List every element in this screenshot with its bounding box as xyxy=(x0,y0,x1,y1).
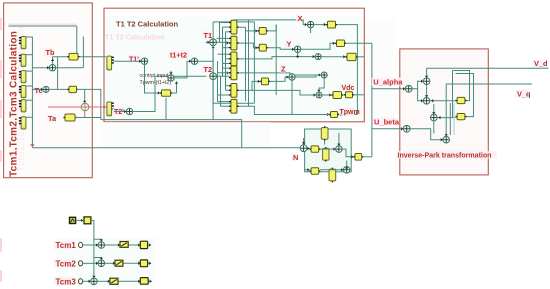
svg-text:T1: T1 xyxy=(204,31,213,40)
sum Z xyxy=(289,74,295,80)
gain block Ta xyxy=(63,114,76,121)
wire T2p to sum T2p xyxy=(114,111,127,113)
svg-text:Tb: Tb xyxy=(46,48,56,57)
lookup block L6 xyxy=(19,117,26,129)
sum B xyxy=(423,78,430,85)
label t1+t2 xyxy=(169,51,190,60)
rail wire r1 xyxy=(245,27,247,101)
svg-text:X: X xyxy=(298,14,303,23)
wire sum N3 up xyxy=(346,161,348,167)
lookup block L2 xyxy=(19,54,26,66)
wire gain R1 into sum C xyxy=(430,100,456,102)
switch block S3 xyxy=(229,52,239,66)
lookup block L3 xyxy=(19,71,26,83)
wire constant to bus xyxy=(91,220,94,277)
switch block S2 xyxy=(229,36,239,50)
wire Tb row xyxy=(53,56,106,58)
svg-text:Inverse-Park transformation: Inverse-Park transformation xyxy=(398,153,492,160)
gain N2 xyxy=(310,168,321,175)
svg-text:T1 T2 Calculation: T1 T2 Calculation xyxy=(116,19,179,28)
sum T2 xyxy=(210,73,217,80)
background tint inside inverse-park box xyxy=(401,50,488,174)
long wire to N section xyxy=(32,147,300,149)
sum pink xyxy=(81,103,89,111)
wire sum F up to V_q xyxy=(445,84,447,136)
svg-text:V_d: V_d xyxy=(534,59,548,68)
relay block Tcm2 xyxy=(115,260,123,266)
wire sum-Tb up to Tb row xyxy=(52,57,54,65)
wire lower horizontal to riser xyxy=(101,120,242,148)
wire pink sum down to Ta row xyxy=(84,111,86,118)
pink artifact above upper loop xyxy=(9,23,77,25)
wire G2 out to Y row xyxy=(268,48,294,50)
gain G3 xyxy=(260,78,270,85)
relay block Tcm3 xyxy=(110,278,118,284)
svg-text:Tpwm: Tpwm xyxy=(340,109,360,116)
vertical block VB2 xyxy=(323,147,329,162)
wire S6 out to Tpwm row xyxy=(239,106,329,114)
tall riser wire x372 xyxy=(371,43,373,157)
wire gain R1 feed riser xyxy=(453,71,470,101)
cluster frame wire bottom xyxy=(213,102,254,104)
svg-text:t1+t2: t1+t2 xyxy=(170,51,187,60)
gain block Tb xyxy=(67,53,79,60)
wire S3 out to mid sum xyxy=(239,57,315,59)
cluster frame wire right xyxy=(253,22,255,103)
gain X xyxy=(326,21,337,28)
wire L4 output to bus xyxy=(26,85,33,87)
wire gain bottom drop xyxy=(165,98,167,120)
sum Tc xyxy=(43,86,49,92)
constant block Vdc xyxy=(344,92,354,98)
wire S5 out branch to sum M3 xyxy=(252,90,316,95)
svg-text:Tcm2: Tcm2 xyxy=(56,259,77,268)
label T2' xyxy=(113,107,126,115)
wire sum T2p up to T2 row xyxy=(133,76,207,111)
arrow into sum tcm3 xyxy=(92,276,95,278)
sum Y xyxy=(294,46,300,52)
background tint N subsystem xyxy=(305,129,352,172)
wire into sum D top xyxy=(433,104,435,114)
wire into G1 xyxy=(251,30,258,32)
wire Ta row to corner xyxy=(75,117,101,119)
wire U_alpha xyxy=(372,88,405,90)
wire G1 out to riser xyxy=(268,25,276,31)
gain B xyxy=(345,53,357,60)
wire S5 out xyxy=(239,81,260,90)
wire Tcm1 row xyxy=(83,244,98,246)
wire sum M2 down to sum M3 xyxy=(319,78,324,92)
title Inverse-Park transformation xyxy=(396,151,497,159)
edge artifact dashes xyxy=(0,18,2,282)
wire S2 out xyxy=(239,42,254,44)
label X xyxy=(296,14,303,23)
sum A u_alpha xyxy=(405,85,412,92)
stub into control sum top xyxy=(170,71,172,75)
input port Tcm2 xyxy=(79,261,83,266)
wire gain C out to box edge xyxy=(354,94,364,96)
mesh stubs into S2 xyxy=(217,37,229,39)
switch block S1 xyxy=(229,20,239,34)
wire into sum N1 top xyxy=(303,138,305,144)
wire sumN1 to gainN1 xyxy=(307,147,310,149)
wire riser x452 xyxy=(452,71,454,119)
background tint inside T1T2 box xyxy=(105,16,363,121)
label Z xyxy=(280,65,287,74)
wire sum A to B and C xyxy=(412,81,423,89)
svg-text:contrpl input: contrpl input xyxy=(140,73,169,79)
loop top wire to X row xyxy=(249,20,307,25)
wire sum M1 to gain B xyxy=(321,56,345,58)
wire sum T2 drop xyxy=(212,80,214,120)
wire sum E to F xyxy=(410,129,443,140)
wire sum N2 to out gain xyxy=(342,149,353,157)
vertical block VB1 xyxy=(321,126,328,141)
gain C xyxy=(331,92,343,99)
mesh stubs into S3 xyxy=(218,53,229,55)
red junction tick on bus xyxy=(31,144,35,146)
wire Tc row xyxy=(32,88,43,90)
wire sum Z out to sum M2 xyxy=(295,75,316,77)
wire into sum N2 top xyxy=(338,133,340,146)
riser vR1 xyxy=(275,25,277,95)
sum T1 xyxy=(210,39,217,46)
wire into pink sum from top xyxy=(84,89,86,102)
annotation box Tcm1,Tcm2,Tcm3 Calculation xyxy=(4,3,93,178)
mesh vertical v3 xyxy=(225,32,227,91)
svg-text:V_q: V_q xyxy=(517,90,531,99)
wire gain B out xyxy=(358,56,364,58)
wire L2 output to bus xyxy=(26,54,33,56)
gain block Tc xyxy=(67,86,78,92)
label Y xyxy=(285,40,292,49)
sum D xyxy=(431,114,438,121)
wire t1t2 sum to T1 riser xyxy=(198,46,213,61)
label Tcm3 xyxy=(54,277,76,286)
mux block T2p xyxy=(107,102,114,116)
svg-text:U_alpha: U_alpha xyxy=(373,78,403,87)
svg-text:Z: Z xyxy=(281,65,286,74)
sum after T2p xyxy=(126,108,132,114)
label U_beta xyxy=(373,117,400,126)
mux block T1p xyxy=(107,56,114,70)
wire gain YA to tall riser xyxy=(346,42,372,44)
label Tcm1 xyxy=(54,241,76,250)
wire gain up into control sum xyxy=(172,82,176,94)
switch block S6 xyxy=(229,99,239,113)
wire band vertical a xyxy=(449,103,451,135)
switch block S4 xyxy=(229,66,239,80)
sum control input xyxy=(168,75,174,81)
switch block S5 xyxy=(229,84,239,98)
wire sum Y out xyxy=(301,43,335,49)
label T1' xyxy=(128,55,141,63)
wire source to constant xyxy=(76,219,84,221)
sum F xyxy=(443,136,450,143)
gain block Tcm1 xyxy=(140,241,147,248)
background tint tcm rows xyxy=(56,238,156,286)
sum N1 xyxy=(300,145,307,152)
wire sum A branch down to C xyxy=(418,89,424,101)
wire S1 out xyxy=(239,26,245,28)
wire G3 out to Z sum xyxy=(270,77,289,81)
gain G1 xyxy=(258,28,268,35)
mesh vertical v2 xyxy=(222,27,224,76)
wire loop bottom into Tpwm block xyxy=(339,114,357,116)
label Tb xyxy=(44,48,55,57)
wire band vertical b xyxy=(453,103,455,135)
label N xyxy=(292,153,299,162)
sum N2 xyxy=(336,146,343,153)
label Tcm2 xyxy=(54,259,76,268)
wire S4 out to sum M2 xyxy=(239,73,321,75)
svg-text:U_beta: U_beta xyxy=(374,117,400,126)
gain G2 xyxy=(258,44,268,51)
wire gain R2 feed riser xyxy=(456,74,474,117)
relay block Tcm1 xyxy=(120,242,128,248)
cluster frame wire top xyxy=(213,21,254,23)
mesh stubs into S5 xyxy=(226,85,229,87)
label T2 xyxy=(202,65,212,74)
svg-text:Y: Y xyxy=(287,40,292,49)
label Ta xyxy=(47,114,57,123)
mesh stubs into S1 xyxy=(220,22,229,24)
wire Tcm2 row xyxy=(83,262,98,264)
sum Tcm3 xyxy=(91,278,98,285)
label Tc xyxy=(33,86,43,95)
sum M1 xyxy=(315,54,321,60)
svg-text:N: N xyxy=(293,153,298,162)
lookup block L5 xyxy=(19,100,26,112)
background tint inside left box xyxy=(5,4,92,177)
label Vdc xyxy=(340,84,354,92)
gain YA xyxy=(335,40,346,47)
lookup block L1 xyxy=(19,37,26,49)
wire gain X loop right xyxy=(337,25,357,115)
wire S1 top loop xyxy=(234,19,249,21)
mesh stubs into S6 xyxy=(218,101,229,103)
constant block top xyxy=(84,217,91,224)
wire T1p to sum xyxy=(114,60,142,62)
upper loop wire xyxy=(9,25,77,27)
svg-text:T2': T2' xyxy=(114,109,124,116)
gain R2 xyxy=(456,114,467,120)
wire into B top xyxy=(426,68,428,78)
wire gainN1 to sum N2 xyxy=(320,148,335,150)
gain control input xyxy=(160,90,172,96)
wire L5 output to bus xyxy=(26,99,33,101)
branch into sum tcm1 xyxy=(94,239,101,241)
annotation box T1 T2 Calculation xyxy=(104,8,364,122)
gain R1 xyxy=(456,97,467,103)
wire sum M3 to gain C xyxy=(322,94,331,96)
gain block Tcm2 xyxy=(140,260,147,267)
gain block Tcm3 xyxy=(140,278,148,285)
wire control sum to t1t2 sum xyxy=(174,61,191,78)
wire L1 output to bus xyxy=(26,36,33,38)
riser wire x57 xyxy=(57,57,59,90)
wire Tcm3 row xyxy=(83,280,91,282)
wire sum X to gain X xyxy=(314,24,326,26)
svg-text:Tcm3: Tcm3 xyxy=(56,277,77,286)
mesh stubs into S4 xyxy=(223,67,229,69)
branch into sum tcm2 xyxy=(94,258,101,260)
svg-text:Tcm1: Tcm1 xyxy=(56,241,77,250)
annotation box Inverse-Park transformation xyxy=(400,49,489,175)
wire frame to gain N2 xyxy=(305,169,310,171)
sum Tb xyxy=(49,65,55,71)
sum Tcm2 xyxy=(98,260,105,267)
output bus wire left column xyxy=(31,37,33,148)
label V_q xyxy=(516,90,532,99)
sum M3 xyxy=(316,92,322,98)
sum t1+t2 xyxy=(191,58,197,64)
mesh vertical v1 xyxy=(219,23,221,43)
svg-text:T2: T2 xyxy=(204,65,213,74)
sum E u_beta xyxy=(403,125,410,132)
mesh vertical v5 xyxy=(220,76,222,106)
svg-text:Ta: Ta xyxy=(48,114,57,123)
sum C xyxy=(423,98,430,105)
wire V_d output xyxy=(427,67,549,69)
wire Vdc to gain C xyxy=(342,94,345,96)
wire sum Z drop to Tpwm row xyxy=(292,80,329,114)
cluster frame wire left xyxy=(212,22,214,103)
sum X xyxy=(307,21,313,27)
wire into G2 xyxy=(254,43,258,48)
stub into sum T1 left xyxy=(206,41,210,43)
stub below sum Y xyxy=(297,53,299,59)
source block icon xyxy=(70,217,76,223)
stub below sum X xyxy=(310,28,312,33)
mesh wire T1 sum to column xyxy=(217,41,229,43)
label Tpwm xyxy=(338,108,360,116)
wire U_beta xyxy=(372,128,403,130)
wire sum T1p down to gain xyxy=(145,64,160,93)
rail wire r2 xyxy=(248,20,250,106)
wire gain R2 into sum D xyxy=(437,117,455,119)
mesh wire T2 sum to column xyxy=(217,75,229,77)
label V_d xyxy=(533,59,549,68)
N subsystem frame wire xyxy=(305,129,352,172)
wire Tc gain to corner xyxy=(77,89,101,119)
sum Tcm1 xyxy=(98,242,105,249)
wire gain N2 to sum N3 xyxy=(320,169,343,171)
artifact tint right of T1T2 box xyxy=(365,20,395,120)
sum after T1p xyxy=(141,58,147,64)
gain N1 xyxy=(310,146,321,152)
input port Tcm3 xyxy=(79,279,83,284)
wire L6 output to bus xyxy=(26,116,33,118)
gain N out xyxy=(353,154,363,161)
stub below VB1 xyxy=(324,141,326,145)
sum N3 xyxy=(343,167,350,174)
wire T1 T2 riser middle xyxy=(212,61,214,73)
constant block Tpwm xyxy=(329,112,339,118)
mesh vertical v4 xyxy=(217,61,219,101)
input port Tcm1 xyxy=(79,242,83,247)
sum M2 xyxy=(321,72,327,78)
wire sum D drop xyxy=(433,121,435,134)
lookup block L4 xyxy=(19,86,26,98)
wire bus to sum-Tb xyxy=(32,67,49,69)
vertical block VB3 xyxy=(329,168,336,183)
svg-text:T1 T2 Calculation: T1 T2 Calculation xyxy=(105,33,165,42)
svg-text:Tc: Tc xyxy=(35,86,43,95)
svg-text:Vdc: Vdc xyxy=(342,85,355,92)
svg-text:T1': T1' xyxy=(129,57,139,64)
wire V_q output xyxy=(446,83,532,85)
wire N out to riser xyxy=(363,156,372,158)
label U_alpha xyxy=(372,78,404,87)
wire B down to C top xyxy=(426,85,428,98)
wire sum-Tb to riser xyxy=(56,67,84,69)
riser wire x83 xyxy=(82,37,84,68)
wire L3 output to bus xyxy=(26,70,33,72)
artifact tint below T1T2 box xyxy=(100,122,270,146)
label T1 xyxy=(202,31,212,40)
pink wire into T2p block xyxy=(48,106,81,108)
